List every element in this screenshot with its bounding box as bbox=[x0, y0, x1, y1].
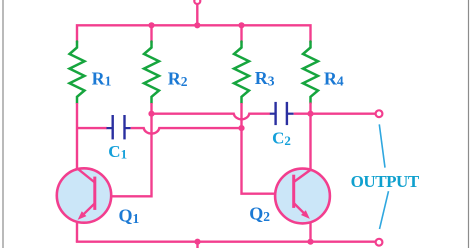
junction: R4 / C2 / Q2 collector node bbox=[307, 111, 313, 117]
wire: Vcc top rail bbox=[77, 25, 311, 42]
resistor R1 bbox=[70, 42, 85, 104]
resistor R4 bbox=[303, 42, 318, 104]
resistor R2 bbox=[144, 42, 159, 104]
resistor R3 bbox=[234, 42, 249, 104]
transistor Q2 bbox=[275, 169, 330, 224]
svg-text:R4: R4 bbox=[324, 68, 344, 88]
junction: ground stub on bottom rail bbox=[194, 239, 200, 245]
junction: rail x R2 bbox=[148, 22, 154, 28]
svg-text:R2: R2 bbox=[168, 69, 188, 89]
wire: bottom ground rail to lower output terminal bbox=[77, 241, 375, 242]
wire: ground stub to bottom edge bbox=[196, 242, 198, 248]
right panel edge bbox=[468, 0, 470, 248]
transistor Q1 bbox=[57, 168, 111, 222]
wire: R2 bottom lead to base node bbox=[150, 103, 152, 114]
svg-text:C1: C1 bbox=[108, 142, 127, 161]
terminal: output upper bbox=[376, 110, 383, 117]
wire: R4 bottom lead to collector node bbox=[309, 103, 311, 114]
svg-text:Q2: Q2 bbox=[249, 204, 270, 225]
brace: output upper line bbox=[379, 124, 385, 167]
wire: Q1 base line (down then left to base) bbox=[96, 114, 152, 197]
capacitor C1 bbox=[107, 115, 131, 139]
junction: C1 wire x R3 / Q2 base line bbox=[238, 125, 244, 131]
terminal: Vcc supply (top) bbox=[194, 0, 200, 4]
svg-text:C2: C2 bbox=[272, 129, 291, 148]
wire: Q2 emitter lead to bottom rail bbox=[309, 222, 311, 242]
capacitor C2 bbox=[270, 102, 294, 125]
wire: Q2 collector lead bbox=[309, 114, 311, 171]
junction: Q2 emitter x bottom rail bbox=[307, 239, 313, 245]
svg-text:R3: R3 bbox=[255, 68, 275, 88]
wire: R3 bottom lead down through node to Q2 base bbox=[242, 103, 293, 194]
wire: R2 top lead bbox=[150, 25, 152, 42]
terminal: output lower bbox=[376, 239, 383, 246]
wire: C1 right lead with hop over Q1 base line bbox=[131, 128, 242, 134]
wire: C1 left lead (pink) bbox=[77, 127, 107, 129]
wire: C2 right lead to collector node bbox=[294, 112, 311, 114]
wire: supply stub down to rail bbox=[196, 4, 198, 25]
wire: R3 top lead bbox=[240, 25, 242, 42]
svg-text:R1: R1 bbox=[92, 68, 112, 88]
junction: rail x supply stub bbox=[194, 22, 200, 28]
left panel edge bbox=[2, 0, 4, 248]
wire: upper coupling wire to C2 with hop over R3 line bbox=[152, 114, 271, 120]
brace: output lower line bbox=[380, 191, 389, 229]
wire: Q1 emitter lead to bottom rail bbox=[76, 222, 78, 241]
junction: rail x R3 bbox=[238, 22, 244, 28]
svg-text:OUTPUT: OUTPUT bbox=[351, 172, 420, 191]
wire: R1 bottom lead down to Q1 collector bbox=[76, 103, 78, 169]
junction: R2 / C2 wire / Q1 base node bbox=[148, 111, 154, 117]
wire: collector node to upper output terminal bbox=[311, 112, 376, 114]
svg-text:Q1: Q1 bbox=[119, 206, 140, 227]
